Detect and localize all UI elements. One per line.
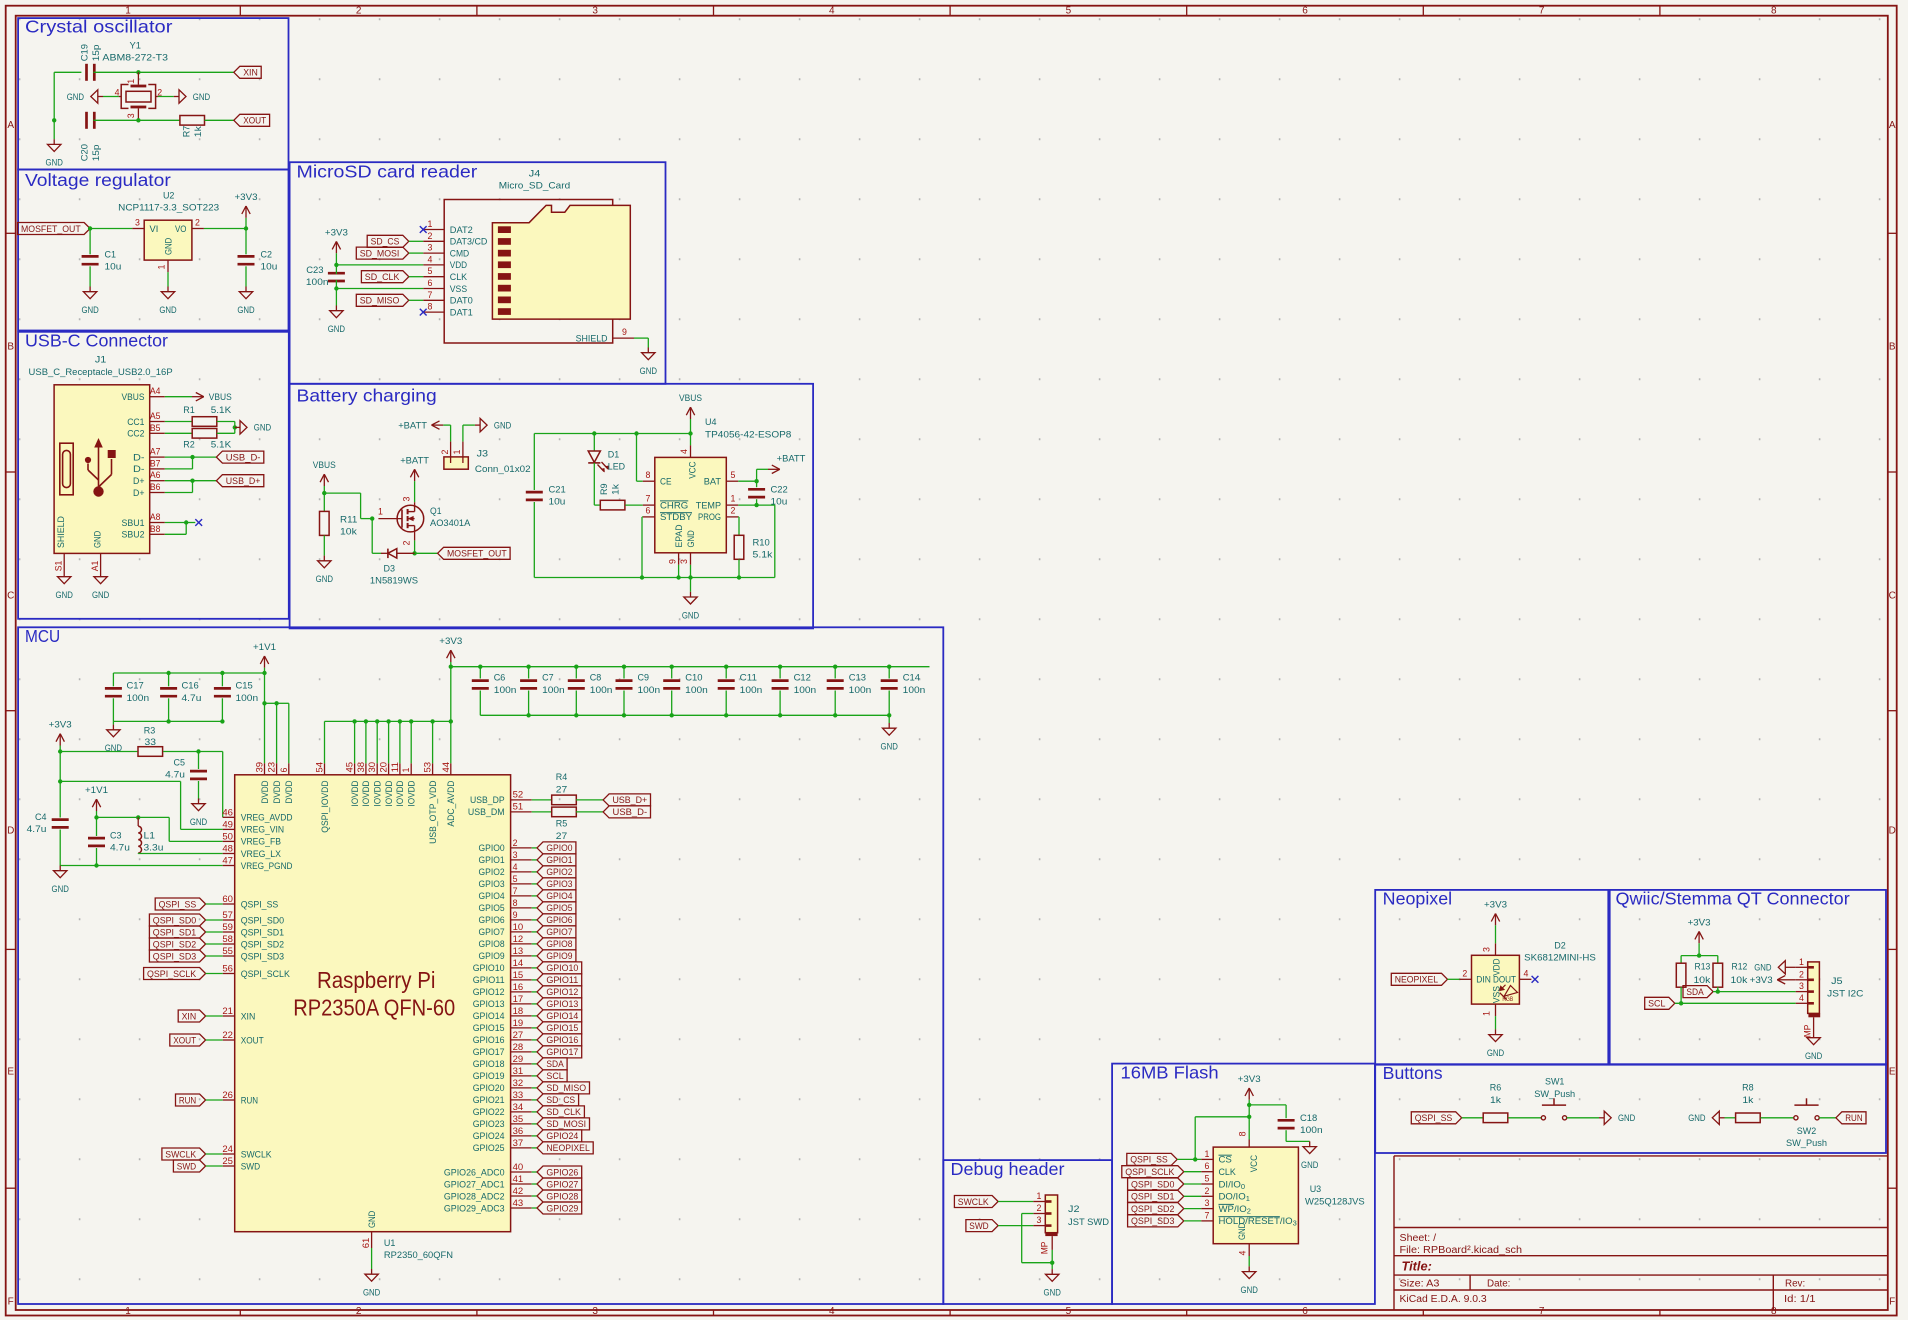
svg-text:2: 2: [440, 449, 450, 454]
svg-text:R4: R4: [556, 772, 568, 783]
svg-text:QSPI_SD0: QSPI_SD0: [1131, 1179, 1174, 1190]
wire R13 to SCL node: [1680, 987, 1682, 1003]
global label XIN: [234, 66, 261, 78]
junction at C20 left: [52, 118, 56, 122]
svg-text:100n: 100n: [306, 277, 329, 288]
svg-text:QSPI_SD1: QSPI_SD1: [241, 927, 284, 938]
global label USB_D+: [216, 475, 263, 487]
section box MicroSD card reader: [290, 162, 666, 384]
U1 pin GPIO26_ADC0: [511, 1171, 532, 1173]
svg-text:C11: C11: [740, 673, 757, 684]
svg-text:R9: R9: [599, 484, 610, 496]
svg-text:USB_DP: USB_DP: [470, 795, 505, 806]
svg-text:SD_MISO: SD_MISO: [546, 1083, 586, 1094]
global label GPIO2: [532, 871, 537, 873]
global label GPIO13: [532, 1003, 537, 1005]
U1 pin GPIO15: [511, 1027, 532, 1029]
svg-text:Neopixel: Neopixel: [1383, 889, 1452, 909]
svg-text:SD_CS: SD_CS: [371, 237, 400, 248]
svg-text:USB-C Connector: USB-C Connector: [25, 331, 168, 351]
svg-text:D+: D+: [133, 488, 145, 499]
svg-text:Id: 1/1: Id: 1/1: [1784, 1294, 1816, 1305]
capacitor C4: [52, 818, 69, 821]
svg-text:C1: C1: [105, 249, 117, 260]
wire D1 to R9: [593, 463, 595, 505]
svg-text:7: 7: [428, 290, 433, 300]
svg-text:GPIO14: GPIO14: [546, 1011, 579, 1022]
svg-text:GPIO21: GPIO21: [473, 1095, 505, 1106]
svg-text:+3V3: +3V3: [1750, 975, 1773, 986]
svg-text:24: 24: [222, 1144, 233, 1154]
svg-text:4: 4: [829, 1306, 835, 1317]
svg-text:R13: R13: [1695, 962, 1711, 972]
global label QSPI_SS: [155, 898, 205, 910]
svg-text:46: 46: [222, 807, 233, 817]
svg-text:41: 41: [513, 1174, 524, 1184]
power +3V3 above U3: [1248, 1088, 1250, 1100]
svg-text:Crystal oscillator: Crystal oscillator: [25, 17, 173, 37]
capacitor C17: [112, 673, 114, 686]
svg-text:GND: GND: [686, 530, 697, 547]
svg-text:6: 6: [1205, 1161, 1210, 1171]
svg-text:SDA: SDA: [1686, 987, 1704, 998]
U1 XIN XOUT RUN SWCLK SWD pins: [223, 1015, 235, 1017]
decoupling bus +1V1: [113, 672, 264, 674]
capacitor C15: [220, 671, 224, 675]
power VBUS above R11: [323, 474, 325, 486]
svg-text:28: 28: [513, 1042, 524, 1052]
wire C2 to GND: [245, 266, 247, 286]
svg-text:1: 1: [378, 507, 383, 517]
border column ticks and numbers: [239, 6, 241, 16]
svg-text:GPIO14: GPIO14: [473, 1011, 506, 1022]
svg-text:D3: D3: [384, 564, 396, 575]
svg-text:50: 50: [222, 831, 233, 841]
svg-text:R11: R11: [340, 514, 357, 525]
svg-text:C12: C12: [794, 673, 811, 684]
svg-text:16: 16: [513, 982, 524, 992]
svg-text:NEOPIXEL: NEOPIXEL: [1395, 975, 1439, 986]
svg-text:B: B: [7, 342, 14, 353]
svg-text:2: 2: [356, 1306, 362, 1317]
no-connect DAT2: [420, 226, 427, 233]
power +3V3 on J5 pin 2: [1789, 979, 1796, 981]
capacitor C18: [1278, 1119, 1295, 1122]
svg-text:SWD: SWD: [969, 1221, 988, 1232]
resistor R3: [138, 747, 163, 757]
svg-text:TP4056-42-ESOP8: TP4056-42-ESOP8: [705, 430, 791, 441]
svg-text:CE: CE: [660, 477, 672, 488]
svg-text:VDD: VDD: [450, 260, 467, 271]
power +3V3 left rail: [59, 734, 61, 746]
svg-text:9: 9: [667, 559, 677, 564]
transistor Q1: [397, 505, 424, 532]
svg-text:100n: 100n: [903, 685, 926, 696]
wire EPAD GND pins to bus: [678, 565, 680, 578]
svg-text:3: 3: [1037, 1215, 1042, 1225]
D2 pin VSS: [1495, 1004, 1497, 1016]
section box USB-C Connector: [18, 332, 289, 619]
svg-text:C10: C10: [685, 673, 702, 684]
svg-text:BAT: BAT: [704, 477, 721, 488]
U1 pin GPIO14: [511, 1015, 532, 1017]
global label GPIO0: [532, 847, 537, 849]
svg-text:16MB Flash: 16MB Flash: [1121, 1063, 1219, 1083]
ground bus bottom left: [60, 865, 223, 867]
svg-text:GPIO1: GPIO1: [546, 855, 572, 866]
wire R10 to bottom bus: [738, 559, 740, 577]
svg-text:QSPI_SD2: QSPI_SD2: [153, 939, 196, 950]
U1 pin GPIO18: [511, 1063, 532, 1065]
junction at Q1 gate node: [370, 516, 374, 520]
svg-text:KiCad E.D.A. 9.0.3: KiCad E.D.A. 9.0.3: [1400, 1294, 1488, 1305]
wire down to GND: [53, 120, 55, 139]
svg-text:5.1K: 5.1K: [211, 405, 232, 416]
svg-text:GPIO4: GPIO4: [479, 891, 506, 902]
svg-text:CS: CS: [1219, 1155, 1232, 1166]
svg-text:XIN: XIN: [182, 1011, 197, 1022]
svg-text:Y1: Y1: [129, 41, 141, 52]
resistor R5: [532, 811, 552, 813]
svg-text:D-: D-: [133, 464, 145, 475]
global label QSPI_SS: [1127, 1153, 1177, 1165]
svg-text:VREG_LX: VREG_LX: [241, 849, 282, 860]
global label GPIO1: [532, 859, 537, 861]
svg-text:Debug header: Debug header: [951, 1159, 1065, 1179]
global label QSPI_SS buttons: [1411, 1112, 1461, 1124]
svg-text:GPIO29: GPIO29: [546, 1203, 578, 1214]
svg-text:8: 8: [513, 898, 518, 908]
svg-text:GPIO8: GPIO8: [546, 939, 572, 950]
svg-text:XIN: XIN: [241, 1011, 256, 1022]
wire shield to GND: [634, 337, 648, 339]
svg-text:MOSFET_OUT: MOSFET_OUT: [447, 549, 507, 560]
svg-text:Qwiic/Stemma QT Connector: Qwiic/Stemma QT Connector: [1616, 889, 1850, 909]
power GND below C4: [59, 866, 61, 871]
U3 GND pin: [1248, 1244, 1250, 1256]
svg-text:B8: B8: [150, 524, 161, 534]
svg-text:12: 12: [513, 934, 524, 944]
svg-text:U4: U4: [705, 417, 717, 428]
svg-text:+3V3: +3V3: [1238, 1074, 1261, 1085]
wire R12 to SDA node: [1717, 987, 1719, 992]
svg-text:27: 27: [513, 1030, 524, 1040]
svg-text:GND: GND: [1688, 1113, 1705, 1124]
U1 pin GPIO27_ADC1: [511, 1183, 532, 1185]
svg-text:+BATT: +BATT: [400, 455, 429, 466]
U1 pin GPIO16: [511, 1039, 532, 1041]
svg-text:3: 3: [679, 559, 689, 564]
capacitor C22: [756, 481, 758, 487]
svg-text:C18: C18: [1300, 1113, 1317, 1124]
svg-text:GND: GND: [328, 324, 345, 335]
svg-text:DAT3/CD: DAT3/CD: [450, 237, 488, 248]
svg-text:15p: 15p: [91, 145, 102, 162]
svg-text:D: D: [7, 826, 14, 837]
section box Qwiic: [1610, 890, 1886, 1065]
svg-text:51: 51: [513, 802, 524, 812]
wire C21 to bottom bus: [533, 502, 535, 578]
svg-text:SW_Push: SW_Push: [1786, 1138, 1827, 1149]
capacitor C21: [533, 434, 535, 491]
svg-text:1: 1: [428, 219, 433, 229]
svg-text:QSPI_SS: QSPI_SS: [1415, 1113, 1453, 1124]
global label USB_D-: [216, 451, 263, 463]
global label SWD debug: [966, 1220, 998, 1232]
capacitor C11: [724, 665, 728, 669]
global label RUN: [176, 1094, 206, 1106]
junction +1V1 bus: [262, 671, 266, 675]
wire L1 to VREG_LX: [137, 852, 139, 855]
power +BATT right: [768, 468, 780, 470]
resistor R12: [1717, 956, 1719, 964]
svg-text:QSPI_SD3: QSPI_SD3: [241, 951, 284, 962]
svg-text:B7: B7: [150, 458, 161, 468]
wire VSS to GND: [1495, 1016, 1497, 1029]
svg-text:E: E: [1889, 1067, 1896, 1078]
global label NEOPIXEL: [1391, 973, 1447, 985]
svg-text:Battery charging: Battery charging: [297, 386, 437, 406]
svg-text:SWCLK: SWCLK: [165, 1149, 196, 1160]
svg-text:SHIELD: SHIELD: [576, 333, 608, 344]
svg-text:USB_C_Receptacle_USB2.0_16P: USB_C_Receptacle_USB2.0_16P: [29, 367, 173, 378]
svg-text:4: 4: [1524, 968, 1529, 978]
svg-text:49: 49: [222, 819, 233, 829]
IOVDD bus wires: [450, 667, 452, 764]
power +BATT left of J3: [432, 424, 444, 426]
svg-text:GPIO24: GPIO24: [546, 1131, 579, 1142]
svg-text:SWD: SWD: [241, 1161, 260, 1172]
svg-text:100n: 100n: [740, 685, 763, 696]
global label QSPI_SD3: [149, 950, 205, 962]
capacitor C13: [833, 665, 837, 669]
svg-text:18: 18: [513, 1006, 524, 1016]
svg-text:GPIO5: GPIO5: [546, 903, 572, 914]
wire down to C2: [245, 229, 247, 255]
title block frame: [1394, 1155, 1888, 1157]
svg-text:R3: R3: [144, 726, 156, 737]
global label QSPI_SD0: [149, 914, 205, 926]
svg-text:SWD: SWD: [177, 1161, 196, 1172]
svg-text:SCL: SCL: [1648, 999, 1666, 1010]
global label RUN buttons: [1836, 1112, 1866, 1124]
svg-text:GPIO16: GPIO16: [546, 1035, 578, 1046]
power GND below C2: [245, 287, 247, 292]
svg-text:4.7u: 4.7u: [27, 824, 47, 835]
svg-text:26: 26: [222, 1090, 233, 1100]
svg-text:C: C: [1889, 591, 1896, 602]
U1 pin GPIO28_ADC2: [511, 1195, 532, 1197]
connector J3: [444, 457, 468, 469]
junction ground loop: [1050, 1261, 1054, 1265]
U1 pin GPIO19: [511, 1075, 532, 1077]
svg-text:W25Q128JVS: W25Q128JVS: [1305, 1196, 1365, 1207]
svg-text:QSPI_SCLK: QSPI_SCLK: [241, 969, 291, 980]
svg-text:QSPI_SS: QSPI_SS: [1130, 1155, 1168, 1166]
U1 pin GPIO0: [511, 847, 532, 849]
svg-text:AO3401A: AO3401A: [430, 518, 471, 529]
svg-text:R10: R10: [753, 538, 770, 549]
svg-text:7: 7: [1539, 6, 1545, 17]
svg-text:+3V3: +3V3: [325, 227, 348, 238]
svg-text:DAT2: DAT2: [450, 225, 473, 236]
svg-text:RP2350A QFN-60: RP2350A QFN-60: [293, 995, 455, 1021]
svg-text:QSPI_SD0: QSPI_SD0: [153, 915, 196, 926]
U1 top power pins: [264, 763, 266, 775]
capacitor C23: [328, 272, 345, 275]
svg-text:4: 4: [1238, 1250, 1248, 1255]
svg-text:D2: D2: [1554, 941, 1566, 952]
capacitor C5: [198, 752, 200, 770]
IC U1 RP2350A body: [235, 775, 511, 1232]
svg-text:QSPI_SD2: QSPI_SD2: [1131, 1204, 1174, 1215]
global label GPIO16: [532, 1039, 537, 1041]
svg-text:1: 1: [452, 449, 462, 454]
svg-text:GPIO11: GPIO11: [473, 975, 505, 986]
svg-text:C7: C7: [542, 673, 554, 684]
global label XOUT: [170, 1034, 206, 1046]
svg-text:21: 21: [222, 1006, 233, 1016]
svg-text:GPIO12: GPIO12: [546, 987, 578, 998]
svg-text:IOVDD: IOVDD: [373, 780, 384, 806]
power VBUS right of J1: [165, 396, 192, 398]
resistor R6: [1483, 1113, 1508, 1123]
U1 pin GPIO11: [511, 979, 532, 981]
power +3V3 above C23: [335, 241, 337, 253]
global label XOUT: [234, 114, 270, 126]
svg-text:3: 3: [126, 113, 136, 118]
power GND below R11: [323, 556, 325, 561]
svg-text:SHIELD: SHIELD: [56, 516, 67, 548]
wire R11 to GND: [323, 535, 325, 555]
global label QSPI_SD0: [1128, 1178, 1184, 1190]
svg-text:Voltage regulator: Voltage regulator: [25, 170, 171, 190]
svg-text:SWCLK: SWCLK: [958, 1197, 989, 1208]
svg-text:QSPI_IOVDD: QSPI_IOVDD: [320, 780, 331, 832]
power GND on J5 pin 1: [1791, 966, 1796, 968]
U1 pin GPIO24: [511, 1135, 532, 1137]
svg-text:C22: C22: [771, 485, 788, 496]
wire BAT to +BATT: [738, 480, 756, 482]
global label QSPI_SD2: [1128, 1203, 1184, 1215]
svg-text:D1: D1: [608, 449, 620, 460]
power +3V3 above D2: [1495, 914, 1497, 926]
svg-text:8: 8: [1771, 1306, 1777, 1317]
svg-text:2: 2: [1037, 1203, 1042, 1213]
svg-text:GPIO8: GPIO8: [479, 939, 505, 950]
no-connect DOUT: [1532, 976, 1539, 983]
svg-text:GPIO18: GPIO18: [473, 1059, 505, 1070]
svg-text:2: 2: [513, 838, 518, 848]
svg-text:8: 8: [428, 302, 433, 312]
svg-text:29: 29: [513, 1054, 524, 1064]
svg-text:USB_D+: USB_D+: [613, 795, 648, 806]
capacitor C20: [85, 112, 88, 129]
U1 pin GPIO25: [511, 1147, 532, 1149]
svg-text:3: 3: [513, 850, 518, 860]
svg-text:5.1k: 5.1k: [753, 550, 773, 561]
capacitor C1: [82, 255, 99, 258]
power GND under C14: [888, 715, 890, 723]
svg-text:USB_D-: USB_D-: [613, 807, 648, 818]
svg-text:6: 6: [428, 278, 433, 288]
wire J3 pin 2 to +BATT: [450, 425, 452, 442]
svg-text:5: 5: [1205, 1174, 1210, 1184]
inductor L1: [138, 826, 141, 853]
resistor R7: [180, 116, 205, 126]
svg-text:VO: VO: [175, 224, 187, 235]
svg-text:3.3u: 3.3u: [144, 843, 164, 854]
svg-text:17: 17: [513, 994, 524, 1004]
junction VBUS VCC: [688, 431, 692, 435]
svg-text:DO/IO1: DO/IO1: [1219, 1192, 1250, 1204]
J2 MP pin: [1045, 1233, 1057, 1236]
svg-text:R1: R1: [183, 405, 195, 416]
svg-text:Conn_01x02: Conn_01x02: [475, 464, 531, 475]
svg-text:GPIO10: GPIO10: [546, 963, 578, 974]
svg-text:42: 42: [513, 1186, 524, 1196]
wire C19 right to crystal: [93, 71, 138, 73]
svg-text:ADC_AVDD: ADC_AVDD: [446, 780, 457, 826]
svg-text:VBUS: VBUS: [122, 392, 145, 403]
wire SW2 to RUN: [1819, 1117, 1836, 1119]
power +BATT above Q1: [414, 469, 416, 481]
svg-text:100n: 100n: [1300, 1125, 1323, 1136]
svg-text:C6: C6: [494, 673, 506, 684]
svg-text:IOVDD: IOVDD: [361, 780, 372, 806]
svg-text:5: 5: [428, 266, 433, 276]
resistor R9: [600, 500, 625, 510]
svg-text:QSPI_SD3: QSPI_SD3: [1131, 1216, 1174, 1227]
svg-text:57: 57: [222, 910, 233, 920]
global label SCL: [532, 1075, 537, 1077]
junction at C1 top: [88, 226, 92, 230]
svg-text:CC2: CC2: [127, 429, 144, 440]
svg-text:GPIO13: GPIO13: [473, 999, 505, 1010]
wire to R6: [1462, 1117, 1483, 1119]
global label SDA: [1683, 986, 1713, 998]
capacitor C12: [778, 665, 782, 669]
svg-text:R5: R5: [556, 819, 568, 830]
svg-text:3: 3: [402, 496, 412, 501]
global label QSPI_SCLK: [1122, 1166, 1184, 1178]
power GND right of J3: [475, 424, 480, 426]
U1 pin GPIO8: [511, 943, 532, 945]
svg-text:10k: 10k: [1694, 975, 1711, 986]
svg-text:3: 3: [1799, 981, 1804, 991]
svg-text:J5: J5: [1831, 976, 1843, 987]
resistor R2: [192, 429, 217, 439]
wires +1V1 to DVDD pins: [264, 673, 266, 763]
svg-text:C16: C16: [182, 680, 199, 691]
svg-text:B5: B5: [150, 423, 161, 433]
global label SD_CLK: [361, 271, 408, 283]
U3 left pins: [1201, 1158, 1213, 1160]
svg-text:GPIO29_ADC3: GPIO29_ADC3: [444, 1203, 505, 1214]
svg-text:2: 2: [731, 506, 736, 516]
svg-text:3: 3: [1482, 947, 1492, 952]
svg-text:CLK: CLK: [1219, 1167, 1237, 1178]
svg-text:+BATT: +BATT: [398, 420, 427, 431]
svg-text:1k: 1k: [1490, 1095, 1501, 1106]
svg-text:1k: 1k: [1742, 1095, 1753, 1106]
U1 pin GPIO17: [511, 1051, 532, 1053]
svg-text:C21: C21: [549, 485, 566, 496]
power GND below U2: [167, 287, 169, 292]
global label GPIO11: [532, 979, 537, 981]
wire +3V3 down to C4: [59, 781, 61, 817]
svg-text:SD_CS: SD_CS: [546, 1095, 575, 1106]
